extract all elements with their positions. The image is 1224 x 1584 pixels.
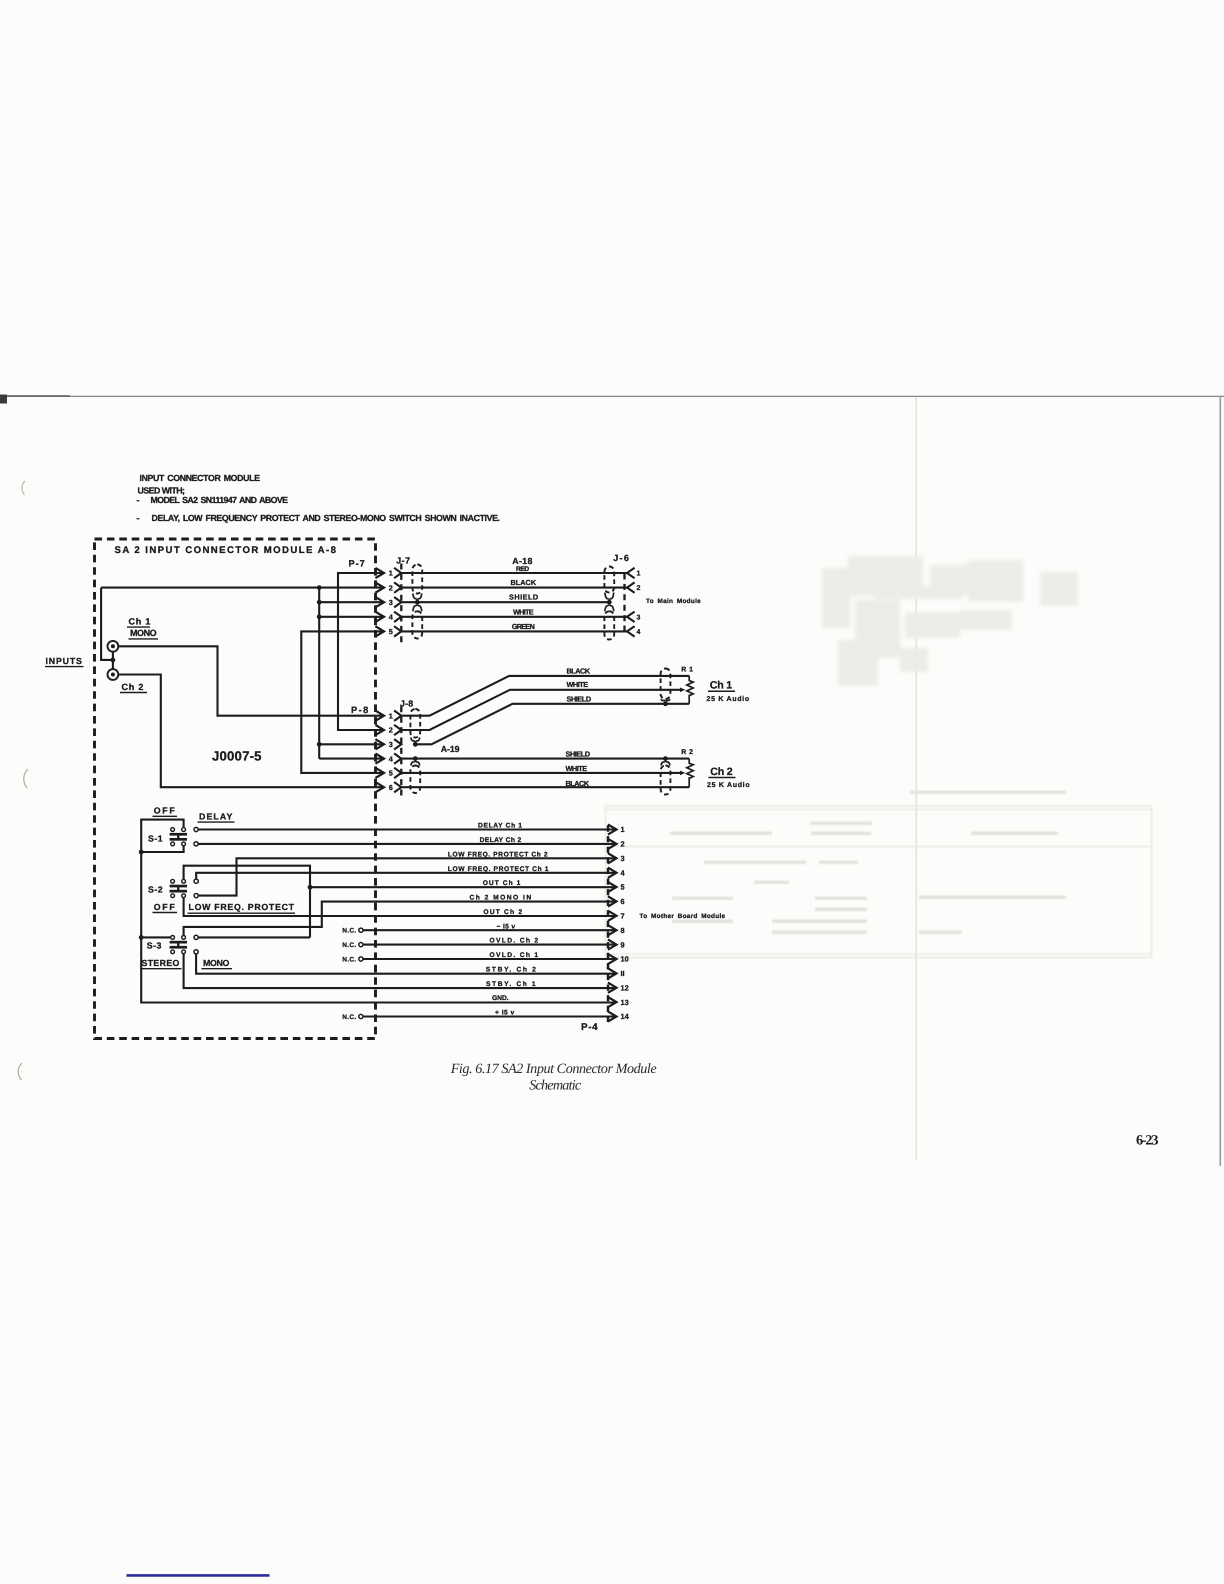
cable A-18 shield oval lower <box>412 611 422 638</box>
svg-text:WHITE: WHITE <box>513 607 534 616</box>
svg-text:BLACK: BLACK <box>567 666 591 675</box>
svg-text:USED WITH;: USED WITH; <box>138 486 186 496</box>
svg-text:+ I5 v: + I5 v <box>495 1010 515 1017</box>
left ground bus <box>141 852 616 1003</box>
svg-text:SHIELD: SHIELD <box>566 750 591 759</box>
R1 shield Y junction <box>661 699 665 701</box>
P-7 pin 1 <box>375 568 384 578</box>
svg-text:-: - <box>137 495 140 505</box>
R2 cable shield oval <box>661 766 671 795</box>
wire S-2 top contact to LFP Ch1 <box>196 873 616 879</box>
svg-text:3: 3 <box>389 740 393 749</box>
svg-text:SHIELD: SHIELD <box>509 593 539 602</box>
wire P-7 pin5 loop to P-8 pin5 <box>301 631 384 773</box>
wire common to P-7 pin2 <box>101 587 384 589</box>
module A-8 dashed boundary box <box>95 539 376 1039</box>
node bus-P8 pin3 row <box>317 742 322 747</box>
P-4 pin 4 <box>608 868 617 878</box>
svg-text:Ch 2 MONO IN: Ch 2 MONO IN <box>470 895 532 902</box>
switch S-1 <box>171 828 175 832</box>
svg-text:A-18: A-18 <box>512 556 533 566</box>
svg-text:MONO: MONO <box>203 958 230 968</box>
node: shield bus junction on pin2 row <box>317 585 322 590</box>
wire S-3 contact to bus <box>198 936 310 938</box>
P-4 pin 10 <box>608 954 617 964</box>
P-4 pin 5 <box>608 882 617 892</box>
svg-text:INPUTS: INPUTS <box>46 656 83 666</box>
P-7 pin 5 <box>375 626 384 636</box>
bottom blue pen line <box>127 1574 270 1577</box>
svg-text:To Main Module: To Main Module <box>646 598 701 605</box>
J-6 pin 2 <box>627 582 635 592</box>
svg-text:OFF: OFF <box>154 902 176 912</box>
svg-text:4: 4 <box>637 629 641 636</box>
svg-text:STBY. Ch 1: STBY. Ch 1 <box>486 981 536 988</box>
ghost table frame <box>606 806 1152 958</box>
wire S-3 BR to STBY Ch1 <box>184 954 617 988</box>
svg-text:BLACK: BLACK <box>566 779 590 788</box>
wire to P-7 pin4 <box>319 616 384 618</box>
svg-text:5: 5 <box>389 627 393 636</box>
P-8 pin 1 <box>375 711 384 721</box>
J-6 pin 1 <box>627 568 635 578</box>
wire OUT Ch 1 <box>310 886 617 888</box>
svg-text:LOW FREQ. PROTECT Ch 2: LOW FREQ. PROTECT Ch 2 <box>448 851 548 858</box>
wire DELAY Ch2 <box>198 843 616 845</box>
P-4 pin 8 <box>608 925 617 935</box>
wire S-2 TR to OUT Ch1 and S-3 contact bus <box>184 866 310 938</box>
wire DELAY Ch1 <box>198 828 616 830</box>
svg-text:S-3: S-3 <box>147 940 162 950</box>
switch S-1 wiring box <box>141 820 183 852</box>
potentiometer R2 <box>687 759 693 788</box>
wire to P-8 pin4 <box>319 758 384 760</box>
svg-text:SHIELD: SHIELD <box>567 695 592 704</box>
svg-text:14: 14 <box>621 1012 630 1021</box>
connector J-8 dashed line <box>400 706 402 799</box>
wire S-3 TR to Ch2 MONO IN <box>184 902 617 936</box>
svg-text:DELAY Ch 1: DELAY Ch 1 <box>478 823 522 830</box>
wire jack sleeves common + junction <box>112 652 114 669</box>
svg-text:9: 9 <box>621 940 625 949</box>
svg-text:DELAY, LOW FREQUENCY PROTECT A: DELAY, LOW FREQUENCY PROTECT AND STEREO-… <box>152 513 501 523</box>
wire to P-8 pin3 <box>319 743 384 745</box>
svg-text:6: 6 <box>621 897 625 906</box>
P-4 pin 11 <box>608 968 617 978</box>
svg-text:13: 13 <box>621 998 629 1007</box>
svg-text:25 K Audio: 25 K Audio <box>707 695 750 703</box>
wire bus to S-3 TL <box>141 936 171 938</box>
P-8 pin 2 <box>375 725 384 735</box>
wire S-2 bottom contact to LFP Ch2 <box>198 858 616 895</box>
P-4 pin 2 <box>608 839 617 849</box>
svg-text:P-7: P-7 <box>349 559 366 569</box>
svg-text:8: 8 <box>621 926 625 935</box>
wire BLACK P-7.2 to J-6.2 <box>401 587 627 589</box>
svg-text:II: II <box>621 969 625 978</box>
P-4 pin 7 <box>608 911 617 921</box>
P-7 pin 2 <box>375 583 384 593</box>
wire J-8.6 BLACK to R2 bottom <box>401 786 689 788</box>
svg-text:OVLD. Ch 2: OVLD. Ch 2 <box>490 938 539 945</box>
P-4 pin 14 <box>608 1011 617 1021</box>
svg-text:N.C.: N.C. <box>342 956 356 963</box>
cable A-18 shield Y and junction <box>413 594 417 599</box>
svg-text:OVLD. Ch 1: OVLD. Ch 1 <box>490 952 539 959</box>
svg-text:6: 6 <box>389 783 393 792</box>
svg-text:Ch 1: Ch 1 <box>129 616 152 626</box>
J-6 pin 4 <box>627 626 635 636</box>
svg-text:DELAY Ch 2: DELAY Ch 2 <box>480 837 522 844</box>
J-6 cable shield oval upper <box>604 567 614 593</box>
P-8 pin 3 <box>375 739 384 749</box>
S-1 free contacts <box>194 827 198 831</box>
P-4 pin 3 <box>608 853 617 863</box>
R1 cable shield oval <box>661 669 671 700</box>
svg-text:OFF: OFF <box>154 806 176 816</box>
P-4 pin 12 <box>608 983 617 993</box>
wire J-8.1 BLACK diagonal to R1 top <box>401 676 689 716</box>
input jack Ch 2 <box>108 669 119 680</box>
svg-text:INPUT CONNECTOR MODULE: INPUT CONNECTOR MODULE <box>140 473 261 483</box>
J-6 cable shield oval lower <box>604 611 614 639</box>
svg-text:5: 5 <box>389 769 393 778</box>
svg-text:Ch 2: Ch 2 <box>122 682 145 692</box>
P-8 pin 5 <box>375 768 384 778</box>
svg-text:STBY. Ch 2: STBY. Ch 2 <box>486 967 537 974</box>
svg-text:P-8: P-8 <box>351 705 369 715</box>
node bus-pin3 row <box>317 600 322 605</box>
scan: pencil marks left margin <box>22 481 25 495</box>
svg-text:2: 2 <box>389 583 393 592</box>
svg-text:To Mother Board Module: To Mother Board Module <box>640 913 726 920</box>
svg-text:1: 1 <box>389 569 393 578</box>
svg-text:WHITE: WHITE <box>566 764 588 773</box>
svg-text:WHITE: WHITE <box>567 680 589 689</box>
svg-text:SA 2 INPUT CONNECTOR MOD: SA 2 INPUT CONNECTOR MODULE A-8 <box>115 545 337 556</box>
cable A-18 shield oval upper <box>412 565 422 594</box>
svg-text:LOW FREQ. PROTECT: LOW FREQ. PROTECT <box>189 902 295 912</box>
svg-text:N.C.: N.C. <box>342 942 356 949</box>
wire S-2 BR to OUT Ch2 <box>184 898 617 916</box>
switch S-3 <box>171 936 175 940</box>
svg-text:S-1: S-1 <box>148 834 163 844</box>
scan: top horizontal rule <box>0 395 1224 397</box>
svg-text:7: 7 <box>621 912 625 921</box>
wire GREEN P-7.5 to J-6.4 <box>401 630 627 632</box>
S-2 free contacts <box>194 879 198 883</box>
switch S-2 <box>171 879 175 883</box>
svg-text:Ch 2: Ch 2 <box>710 766 733 778</box>
S-3 free contacts <box>194 935 198 939</box>
svg-text:3: 3 <box>621 854 625 863</box>
svg-text:GND.: GND. <box>492 995 509 1002</box>
wire J-8.2 WHITE diagonal to R1 wiper <box>401 690 681 730</box>
svg-text:N.C.: N.C. <box>342 928 356 935</box>
svg-text:STEREO: STEREO <box>142 958 181 968</box>
svg-text:OUT Ch 1: OUT Ch 1 <box>483 880 521 887</box>
wire shield bus vertical <box>318 588 320 759</box>
J-6 shield Y junction <box>605 593 609 599</box>
wire Ch1 tip to P-8 pin1 <box>118 646 384 715</box>
wire Ch2 tip to P-8 pin6 <box>118 675 384 788</box>
svg-text:10: 10 <box>621 955 629 964</box>
A-19 pin4 shield node and Y down <box>413 756 418 761</box>
cable A-19 shield oval lower <box>410 766 420 794</box>
scan: center crease <box>915 397 917 1160</box>
scan: right page edge <box>1219 396 1221 1166</box>
wire to P-7 pin3 <box>319 601 384 603</box>
svg-text:A-19: A-19 <box>441 744 460 754</box>
svg-text:J-7: J-7 <box>396 556 410 566</box>
svg-text:5: 5 <box>621 883 625 892</box>
svg-text:N.C.: N.C. <box>342 1014 356 1021</box>
P-4 pin 9 <box>608 940 617 950</box>
svg-text:-: - <box>137 513 140 523</box>
wire MONO contact to STBY Ch2 <box>196 954 616 974</box>
svg-text:J-6: J-6 <box>613 553 629 563</box>
svg-text:3: 3 <box>389 598 393 607</box>
svg-text:S-2: S-2 <box>148 884 163 894</box>
svg-text:2: 2 <box>389 726 393 735</box>
svg-text:1: 1 <box>621 825 625 834</box>
svg-text:J0007-5: J0007-5 <box>212 749 262 764</box>
svg-text:DELAY: DELAY <box>199 811 233 821</box>
svg-text:BLACK: BLACK <box>511 578 537 587</box>
input jack Ch 1 / MONO <box>108 641 119 652</box>
wire RED P-7.1 to J-6.1 <box>401 572 627 574</box>
J-6 pin 3 <box>627 612 635 622</box>
wire SHIELD P-7.3 to J-6 shield node <box>401 601 609 603</box>
svg-text:OUT Ch 2: OUT Ch 2 <box>483 909 522 916</box>
ghost bleed-through content <box>822 556 1078 686</box>
svg-text:Ch 1: Ch 1 <box>710 680 733 692</box>
svg-text:2: 2 <box>621 840 625 849</box>
connector J-6 dashed line <box>623 574 625 633</box>
A-19 shield Y to pin3 node <box>411 738 415 741</box>
cable A-19 shield oval upper <box>410 709 420 738</box>
wire J-8.4 SHIELD to R2 top <box>401 758 689 760</box>
svg-text:− I5 v: − I5 v <box>497 923 516 930</box>
svg-text:GREEN: GREEN <box>512 622 536 631</box>
P-7 pin 4 <box>375 612 384 622</box>
svg-text:RED: RED <box>516 566 530 573</box>
wire J-8.5 WHITE to R2 wiper <box>401 772 681 774</box>
svg-text:P-4: P-4 <box>581 1022 598 1033</box>
svg-text:6-23: 6-23 <box>1136 1133 1159 1149</box>
P-4 pin 1 <box>608 824 617 834</box>
P-4 pin 6 <box>608 896 617 906</box>
svg-text:LOW FREQ. PROTECT Ch 1: LOW FREQ. PROTECT Ch 1 <box>448 866 549 873</box>
svg-text:Schematic: Schematic <box>529 1078 582 1094</box>
node bus-pin4 row <box>317 614 322 619</box>
connector J-7 dashed line <box>400 564 402 644</box>
svg-text:Fig. 6.17 SA2 Input Connect: Fig. 6.17 SA2 Input Connector Module <box>450 1061 657 1077</box>
P-8 pin 4 <box>375 754 384 764</box>
svg-text:1: 1 <box>389 711 393 720</box>
svg-text:MONO: MONO <box>130 628 157 638</box>
svg-text:12: 12 <box>621 983 629 992</box>
P-4 pin 13 <box>608 997 617 1007</box>
svg-text:3: 3 <box>637 614 641 621</box>
connector P-4 dashed line <box>607 826 610 1023</box>
svg-text:1: 1 <box>637 571 641 578</box>
R2 shield node and Y <box>663 756 668 761</box>
svg-text:2: 2 <box>637 585 641 592</box>
P-8 pin 6 <box>375 782 384 792</box>
P-7 pin 3 <box>375 597 384 607</box>
wire WHITE P-7.4 to J-6.3 <box>401 616 627 618</box>
svg-text:MODEL SA2 SN111947 AND ABOVE: MODEL SA2 SN111947 AND ABOVE <box>151 495 289 505</box>
wire P-7 pin1 loop to P-8 pin2 <box>338 573 384 730</box>
svg-text:R 1: R 1 <box>681 667 693 674</box>
svg-text:25 K Audio: 25 K Audio <box>707 781 750 789</box>
svg-text:R 2: R 2 <box>681 749 693 756</box>
potentiometer R1 <box>687 676 693 704</box>
wire J-8.3 SHIELD diagonal to R1 bottom <box>415 704 689 745</box>
